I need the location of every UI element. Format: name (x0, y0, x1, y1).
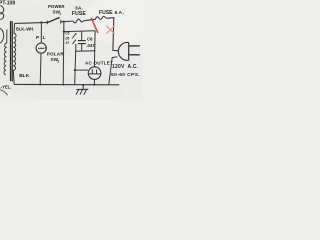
wire: bottom rail (14, 83, 119, 85)
wire: mid horizontal (to outlet branch) (64, 30, 95, 33)
node on branch 2 (63, 30, 65, 32)
paper grain overlay (0, 0, 1, 1)
capacitor C6 (81, 31, 83, 40)
wire: rail fuse1 to fuse2 (85, 19, 96, 20)
red markup X over right wire (106, 26, 114, 34)
pilot lamp PL (36, 43, 46, 53)
wire: plug bottom to rail (109, 57, 117, 85)
node: outlet / bottom rail (93, 84, 95, 86)
primary winding (right side of core) (13, 23, 16, 84)
wire: lower mid horizontal (76, 50, 96, 53)
wire: polar switch down to bottom rail (75, 44, 76, 85)
wire: outlet branch vertical (93, 31, 96, 67)
wire: rail to top-right corner, down the right side (108, 18, 119, 51)
secondary winding with loops lower-left (4, 30, 7, 75)
wire: branch 2 (top rail to bottom rail) (63, 21, 65, 23)
wire: pilot lamp to bottom rail (39, 53, 42, 84)
wire: top rail (15, 22, 48, 23)
node: pilot branch / bottom rail (39, 84, 41, 86)
secondary winding arc mid-left (0, 28, 3, 43)
fuse F1 (3A) wavy symbol (73, 19, 85, 23)
wire: pilot light branch down (40, 23, 42, 44)
paper background (0, 0, 143, 100)
node: junction top rail / pilot branch (40, 21, 42, 23)
node: branch 2 / bottom rail (63, 84, 65, 86)
faint arc bottom-left (clipped component) (0, 90, 7, 96)
plug P1 (118, 43, 128, 61)
ground (chassis) (82, 84, 84, 86)
switch SW1 (46, 21, 48, 25)
red markup line over fuse F2 (91, 18, 98, 33)
wire: rail switch to fuse1 (61, 20, 73, 23)
wire: outlet left to polar branch (75, 69, 88, 71)
tube/winding arcs top-left (clipped) (0, 6, 3, 20)
fuse F2 (6A) wavy symbol (96, 16, 108, 19)
AC outlet SO1 (88, 67, 101, 80)
node on that wire (74, 69, 76, 71)
transformer core (10, 21, 12, 81)
wire: outlet to bottom rail (93, 80, 95, 85)
polar switch contacts (72, 34, 75, 38)
